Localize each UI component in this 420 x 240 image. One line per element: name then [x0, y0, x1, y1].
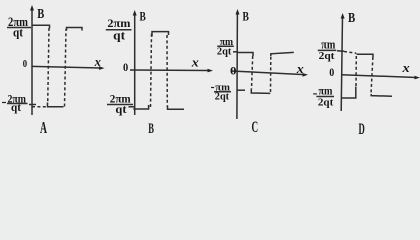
- panel D wave bottom segment 1: [341, 87, 356, 99]
- panel B wave bottom segment 1: [133, 105, 148, 109]
- panel A wave top segment 2: [67, 28, 83, 31]
- svg-text:0: 0: [23, 59, 27, 70]
- panel C wave top segment 2: [271, 52, 294, 56]
- svg-text:2qt: 2qt: [217, 46, 232, 57]
- panel A x-axis arrowhead: [99, 66, 105, 70]
- panel C bottom level tick across axis: [237, 89, 246, 91]
- panel A wave dashed drop v1: [48, 28, 49, 104]
- panel C top level tick across axis: [233, 51, 238, 53]
- panel A bottom dashed level guide: [32, 106, 46, 108]
- panel A fraction bar top label: [7, 27, 31, 29]
- svg-text:qt: qt: [11, 100, 21, 114]
- svg-text:x: x: [401, 61, 409, 75]
- panel D fraction bar top label: [318, 49, 337, 51]
- panel B x-axis arrowhead: [208, 69, 214, 73]
- svg-text:0: 0: [329, 65, 334, 79]
- svg-text:x: x: [191, 56, 199, 70]
- panel A fraction bar bottom label: [7, 103, 28, 105]
- panel B wave dashed rise v1: [151, 34, 152, 108]
- panel D wave dashed rise v1: [355, 56, 357, 87]
- panel B fraction bar top label: [106, 29, 132, 31]
- svg-text:x: x: [94, 55, 101, 69]
- panel D wave bottom segment 2: [371, 94, 392, 96]
- panel B wave top pulse: [152, 32, 169, 37]
- panel B bottom level tick across axis: [129, 106, 136, 108]
- panel D x-axis arrowhead: [415, 76, 420, 80]
- panel A wave dashed rise v2: [65, 29, 67, 107]
- panel A bottom label minus: [2, 102, 6, 104]
- panel B y-axis arrowhead: [133, 10, 137, 16]
- svg-text:0: 0: [230, 66, 237, 78]
- svg-text:2qt: 2qt: [215, 92, 230, 103]
- panel A wave bottom segment solid: [48, 103, 64, 107]
- svg-text:B: B: [37, 7, 44, 22]
- panel C x-axis: [231, 71, 305, 75]
- panel C wave dashed drop v1: [252, 56, 253, 89]
- svg-text:2qt: 2qt: [319, 50, 335, 62]
- panel C wave dashed rise v2: [270, 56, 272, 92]
- svg-text:qt: qt: [115, 102, 126, 116]
- paper background: [0, 0, 420, 136]
- panel C x-axis arrowhead: [303, 73, 309, 77]
- svg-text:qt: qt: [113, 29, 126, 43]
- panel D x-axis: [341, 75, 417, 78]
- panel C y-axis B: [236, 12, 239, 119]
- panel A bottom level tick across axis: [29, 104, 36, 106]
- panel A y-axis arrowhead: [30, 5, 34, 11]
- panel B wave bottom segment 2: [168, 106, 185, 110]
- svg-text:C: C: [252, 119, 259, 136]
- panel D bottom label minus: [313, 93, 317, 95]
- panel D wave top dashed level guide: [344, 52, 356, 54]
- svg-text:x: x: [296, 62, 304, 76]
- panel D y-axis B: [341, 16, 342, 111]
- panel D fraction bar bottom label: [316, 96, 334, 98]
- svg-text:D: D: [359, 121, 365, 136]
- panel D wave dashed drop v2: [371, 57, 373, 94]
- panel A y-axis B: [31, 8, 33, 115]
- panel B wave dashed drop v2: [166, 35, 168, 107]
- panel C wave top segment 1: [237, 53, 253, 57]
- panel B y-axis B: [134, 13, 136, 115]
- svg-text:B: B: [348, 11, 355, 26]
- svg-text:0: 0: [123, 60, 128, 74]
- svg-text:qt: qt: [13, 25, 24, 40]
- panel B fraction bar bottom label: [107, 104, 133, 106]
- panel C wave bottom segment: [251, 89, 270, 94]
- svg-text:B: B: [140, 8, 147, 23]
- svg-text:B: B: [148, 121, 154, 136]
- panel A wave top segment 1: [32, 25, 50, 28]
- panel C y-axis arrowhead: [236, 9, 240, 15]
- svg-text:B: B: [243, 9, 250, 24]
- svg-text:2qt: 2qt: [318, 97, 334, 109]
- svg-text:A: A: [40, 118, 47, 136]
- panel D wave top segment: [357, 54, 374, 57]
- panel B x-axis: [130, 69, 210, 72]
- panel D top level tick across axis: [337, 50, 344, 53]
- panel C fraction bar bottom label: [214, 91, 231, 93]
- panel C fraction bar top label: [217, 45, 234, 47]
- panel A x-axis: [32, 66, 101, 68]
- panel C bottom label minus: [211, 87, 214, 89]
- panel D y-axis arrowhead: [341, 13, 345, 19]
